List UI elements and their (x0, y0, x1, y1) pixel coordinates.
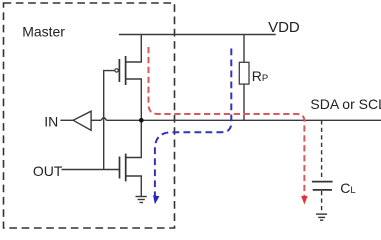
svg-text:SDA or SCL: SDA or SCL (310, 96, 381, 112)
svg-text:IN: IN (44, 113, 58, 129)
svg-text:OUT: OUT (33, 163, 63, 179)
svg-text:Master: Master (22, 23, 65, 39)
svg-text:VDD: VDD (268, 19, 300, 36)
